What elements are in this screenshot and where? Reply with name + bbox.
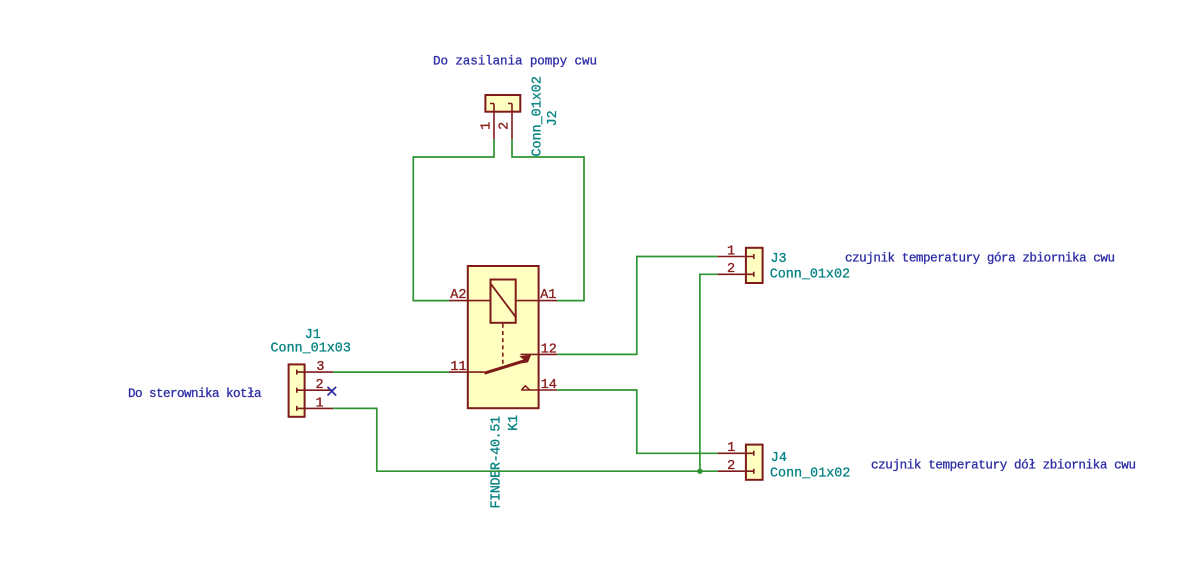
svg-text:Conn_01x02: Conn_01x02 (531, 76, 546, 156)
J1 reference J1 (305, 328, 321, 343)
K1 pin 11 number (450, 360, 466, 375)
K1 pin 11 (449, 371, 484, 373)
svg-text:2: 2 (498, 122, 513, 130)
svg-text:czujnik temperatury góra zbior: czujnik temperatury góra zbiornika cwu (845, 251, 1115, 265)
J1 pin 2 (306, 389, 334, 391)
svg-text:K1: K1 (507, 415, 522, 431)
K1 pin A1 number (540, 288, 556, 303)
J4 pin 1 (718, 452, 745, 454)
J1 pin 1 (306, 407, 334, 409)
svg-text:1: 1 (315, 396, 323, 411)
J3 value Conn_01x02 (770, 268, 850, 283)
svg-text:12: 12 (541, 342, 557, 357)
J1 value Conn_01x03 (271, 342, 351, 357)
connector J1 body (289, 364, 306, 416)
J1 pin 2 no-connect X (328, 387, 337, 396)
J1 pin 1 number (315, 396, 323, 411)
svg-text:1: 1 (727, 441, 735, 456)
svg-text:czujnik temperatury dół zbiorn: czujnik temperatury dół zbiornika cwu (871, 459, 1136, 473)
J2 pin 1 (493, 113, 495, 140)
wire J1.3 to K1.11 (333, 371, 449, 373)
K1 reference K1 (507, 415, 522, 431)
svg-text:Conn_01x02: Conn_01x02 (770, 467, 850, 482)
K1 switch blade (484, 355, 531, 373)
svg-text:Do zasilania pompy cwu: Do zasilania pompy cwu (433, 55, 597, 69)
wire J1.1 to J4.2 (333, 408, 718, 471)
J4 pin 2 (718, 470, 745, 472)
K1 pin 12 (521, 353, 558, 355)
svg-text:1: 1 (480, 122, 495, 130)
svg-text:Conn_01x02: Conn_01x02 (770, 268, 850, 283)
J1 pin 2 number (315, 378, 323, 393)
K1 value FINDER-40.51 (489, 416, 504, 509)
J1 pin 3 number (316, 360, 324, 375)
connector J4 body (745, 445, 763, 480)
K1 coil (490, 280, 516, 323)
svg-text:J4: J4 (771, 451, 787, 466)
svg-text:A2: A2 (450, 288, 466, 303)
J3 pin 1 number (727, 244, 735, 259)
J3 reference J3 (771, 252, 787, 267)
K1 pin 14 (521, 389, 557, 391)
K1 pin A1 (517, 300, 558, 302)
svg-text:J2: J2 (546, 110, 561, 126)
J2 pin 2 number (498, 122, 513, 130)
wire J2.2 to K1.A1 (512, 139, 584, 300)
J3 pin 2 number (727, 262, 735, 277)
J2 reference J2 (546, 110, 561, 126)
K1 pin 14 contact triangle (521, 386, 529, 390)
svg-text:2: 2 (315, 378, 323, 393)
svg-text:14: 14 (541, 378, 557, 393)
J4 pin 1 number (727, 441, 735, 456)
svg-text:Do sterownika kotła: Do sterownika kotła (128, 387, 262, 401)
svg-text:FINDER-40.51: FINDER-40.51 (489, 416, 504, 509)
wire K1.12 to J3.1 (557, 257, 717, 355)
svg-text:1: 1 (727, 244, 735, 259)
wire J3.2 to junction (700, 274, 718, 471)
J4 pin 2 number (727, 459, 735, 474)
svg-text:3: 3 (316, 360, 324, 375)
svg-text:2: 2 (727, 459, 735, 474)
wire J2.1 to K1.A2 (413, 139, 494, 300)
K1 pin 14 number (541, 378, 557, 393)
relay K1 body (468, 266, 539, 408)
svg-text:2: 2 (727, 262, 735, 277)
svg-text:J3: J3 (771, 252, 787, 267)
K1 pin A2 number (450, 288, 466, 303)
svg-text:A1: A1 (540, 288, 556, 303)
svg-text:Conn_01x03: Conn_01x03 (271, 342, 351, 357)
J2 pin 1 number (480, 122, 495, 130)
svg-text:11: 11 (450, 360, 466, 375)
J4 value Conn_01x02 (770, 467, 850, 482)
J3 pin 2 (718, 273, 745, 275)
J4 reference J4 (771, 451, 787, 466)
junction (697, 469, 702, 474)
J2 value Conn_01x02 (531, 76, 546, 156)
J3 pin 1 (718, 256, 745, 258)
K1 pin A2 (449, 300, 490, 302)
K1 actuator dashed link (502, 324, 504, 365)
K1 pin 12 number (541, 342, 557, 357)
connector J3 body (745, 248, 763, 283)
J2 pin 2 (511, 113, 513, 140)
wire K1.14 to J4.1 (557, 390, 717, 453)
connector J2 body (485, 95, 520, 113)
J1 pin 3 (306, 371, 334, 373)
